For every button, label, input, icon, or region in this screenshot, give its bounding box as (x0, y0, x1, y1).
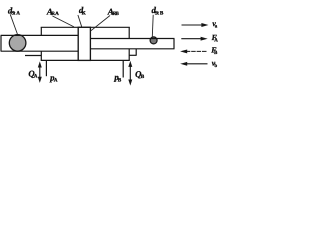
svg-text:A: A (55, 11, 59, 17)
svg-text:B: B (141, 74, 145, 80)
svg-text:St: St (11, 10, 15, 16)
svg-text:A: A (214, 37, 218, 43)
svg-text:St: St (155, 10, 159, 16)
svg-text:B: B (118, 77, 122, 83)
svg-text:A: A (54, 78, 58, 84)
svg-text:K: K (82, 10, 86, 16)
svg-text:A: A (34, 74, 38, 80)
svg-text:B: B (160, 10, 164, 16)
svg-text:B: B (115, 11, 119, 17)
svg-text:b: b (214, 63, 217, 69)
svg-text:A: A (16, 10, 20, 16)
